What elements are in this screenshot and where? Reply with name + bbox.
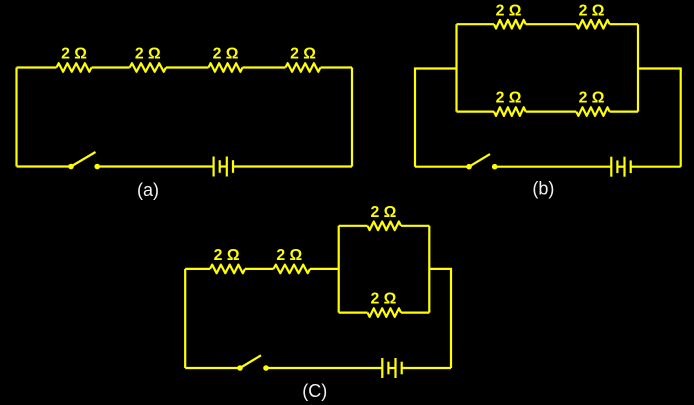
value label R11 (370, 204, 396, 221)
resistor R1 (2 ohm) (57, 63, 92, 72)
svg-text:2 Ω: 2 Ω (290, 45, 316, 62)
wire: circuit (b) left connector and outer left side (415, 69, 457, 167)
battery BT3 (two cells) (382, 358, 401, 378)
svg-text:2 Ω: 2 Ω (370, 204, 396, 221)
value label R5 (496, 3, 522, 20)
value label R6 (579, 3, 605, 20)
resistor R6 (2 ohm) (576, 20, 609, 29)
svg-text:(a): (a) (137, 180, 159, 200)
svg-text:2 Ω: 2 Ω (61, 45, 87, 62)
wire: circuit (b) inner bottom branch segments (457, 110, 639, 112)
wire: circuit (b) right connector and outer right side (638, 69, 681, 167)
resistor R8 (2 ohm) (576, 107, 609, 116)
wire: circuit (a) top side segments between resistors (17, 66, 353, 68)
resistor R7 (2 ohm) (494, 107, 526, 116)
resistor R9 (2 ohm) (210, 265, 245, 274)
battery BT2 (two cells) (611, 157, 630, 177)
wire: circuit (c) bottom segments (185, 367, 451, 369)
value label R3 (213, 45, 239, 62)
wire: circuit (c) outer left side (184, 269, 186, 368)
resistor R10 (2 ohm) (274, 265, 311, 274)
wire: circuit (c) right connector and outer right side (429, 269, 451, 368)
wire: circuit (b) inner top branch segments (457, 23, 639, 25)
wire: circuit (b) inner parallel loop right side (637, 24, 639, 111)
svg-text:2 Ω: 2 Ω (214, 247, 240, 264)
value label R10 (276, 247, 302, 264)
circuit label (a) (137, 180, 159, 200)
svg-text:2 Ω: 2 Ω (496, 3, 522, 20)
wire: circuit (a) left side (15, 68, 17, 167)
wire: circuit (c) inner parallel loop left side (338, 226, 340, 313)
wire: circuit (c) inner top branch segments (339, 225, 430, 227)
resistor R4 (2 ohm) (286, 63, 321, 72)
svg-text:2 Ω: 2 Ω (276, 247, 302, 264)
svg-text:(b): (b) (532, 179, 554, 199)
switch S1 (open knife switch) (68, 152, 100, 169)
battery BT1 (two cells) (214, 157, 233, 177)
resistor R12 (2 ohm) (368, 308, 402, 317)
value label R9 (214, 247, 240, 264)
value label R2 (135, 45, 161, 62)
switch S2 (open knife switch) (466, 154, 497, 169)
circuit label (C) (302, 381, 327, 401)
svg-text:2 Ω: 2 Ω (370, 290, 396, 307)
resistor R3 (2 ohm) (209, 63, 243, 72)
resistor R11 (2 ohm) (368, 222, 402, 231)
wire: circuit (b) inner parallel loop left side (455, 24, 457, 111)
resistor R5 (2 ohm) (494, 20, 526, 29)
svg-text:2 Ω: 2 Ω (213, 45, 239, 62)
value label R8 (579, 90, 605, 107)
wire: circuit (a) right side (351, 68, 353, 167)
wire: circuit (c) inner bottom branch segments (339, 312, 430, 314)
wire: circuit (a) bottom segments (17, 165, 353, 167)
wire: circuit (b) bottom segments (415, 166, 681, 168)
switch S3 (open knife switch) (237, 355, 269, 371)
svg-text:(C): (C) (302, 381, 327, 401)
svg-text:2 Ω: 2 Ω (579, 90, 605, 107)
svg-text:2 Ω: 2 Ω (135, 45, 161, 62)
resistor R2 (2 ohm) (130, 63, 166, 72)
value label R1 (61, 45, 87, 62)
value label R12 (370, 290, 396, 307)
value label R4 (290, 45, 316, 62)
circuit label (b) (532, 179, 554, 199)
svg-text:2 Ω: 2 Ω (579, 3, 605, 20)
value label R7 (496, 90, 522, 107)
wire: circuit (c) series branch segments (185, 268, 339, 270)
wire: circuit (c) inner parallel loop right side (428, 226, 430, 313)
svg-text:2 Ω: 2 Ω (496, 90, 522, 107)
